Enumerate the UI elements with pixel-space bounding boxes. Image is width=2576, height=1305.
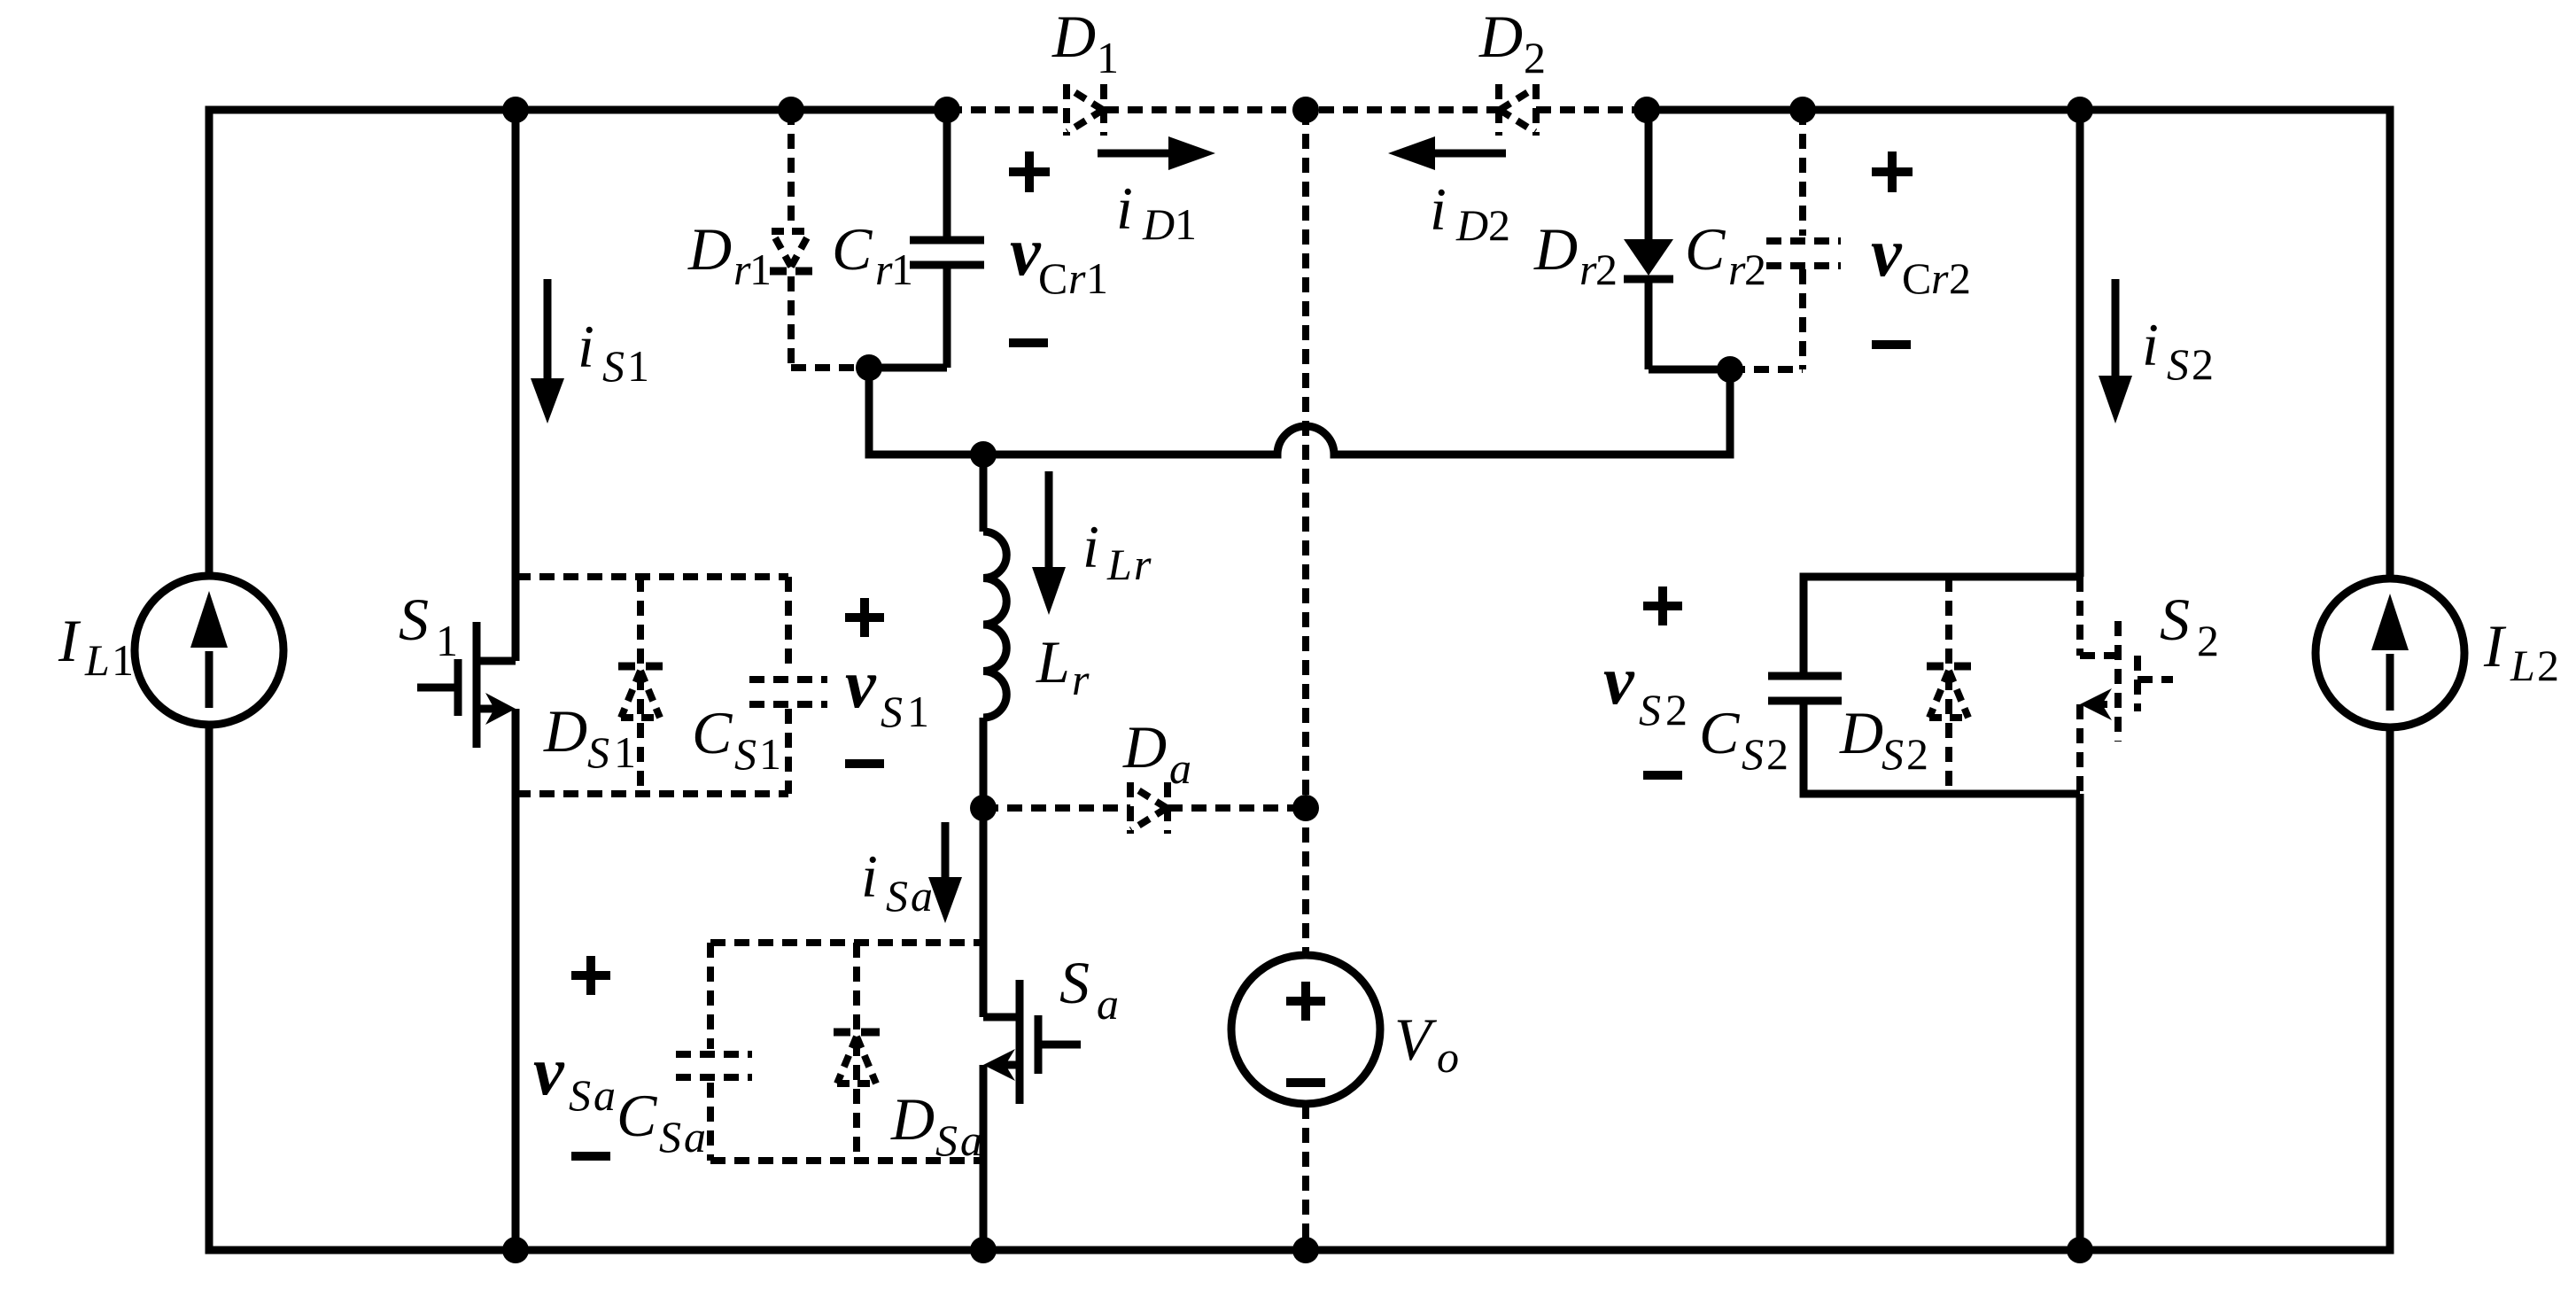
snubber box Sa (dashed) (710, 939, 983, 946)
svg-text:1: 1 (1097, 33, 1119, 82)
svg-text:i: i (1116, 175, 1133, 242)
label iD1 (1116, 175, 1197, 249)
node dot top rail S1 (502, 97, 529, 123)
label Vo (1394, 1006, 1459, 1082)
svg-text:i: i (1430, 175, 1447, 243)
svg-text:C: C (1038, 253, 1067, 303)
label CS2 (1699, 699, 1788, 779)
svg-text:1: 1 (614, 727, 636, 777)
node Lr bottom junction (970, 795, 997, 821)
svg-text:r: r (875, 245, 893, 294)
diode DSa (dashed) (834, 943, 880, 1161)
svg-text:I: I (2483, 612, 2507, 680)
svg-text:2: 2 (2192, 339, 2214, 389)
svg-text:r: r (1579, 245, 1597, 294)
label vCr2 minus (1872, 340, 1911, 349)
wire S2 branch upper (2076, 110, 2084, 577)
svg-text:C: C (692, 699, 733, 766)
svg-text:S: S (1639, 685, 1661, 734)
diode Dr1 (dashed) with node wiring (770, 110, 856, 368)
svg-text:2: 2 (1744, 245, 1766, 294)
wire center dashed output line upper (1302, 110, 1309, 955)
svg-text:D: D (1533, 215, 1578, 283)
label Cr1 (832, 215, 913, 294)
svg-text:v: v (533, 1032, 565, 1109)
transistor S2 (dashed) (2080, 577, 2173, 794)
svg-text:S: S (587, 727, 609, 777)
svg-text:2: 2 (1906, 729, 1928, 779)
arrow iLr (1032, 471, 1066, 615)
svg-text:r: r (1728, 245, 1746, 294)
node center line Da junction (1292, 795, 1319, 821)
diode DS2 (dashed) (1927, 577, 1971, 794)
arrow iS1 (531, 279, 564, 423)
svg-text:r: r (1072, 655, 1090, 704)
svg-text:r: r (1931, 253, 1949, 303)
label Dr1 (687, 215, 772, 294)
node dot top rail Dr1 (778, 97, 804, 123)
svg-text:S: S (2167, 339, 2189, 389)
label iSa (861, 843, 933, 920)
node mid-Lr junction (970, 441, 997, 468)
svg-text:r: r (1134, 540, 1152, 589)
label D2 (1478, 3, 1546, 82)
arrow iS2 (2099, 279, 2132, 423)
svg-text:r: r (1068, 253, 1086, 303)
snubber box S2 (solid) (1804, 577, 2080, 672)
svg-text:C: C (1902, 253, 1931, 303)
svg-text:2: 2 (2197, 616, 2219, 665)
svg-text:D: D (687, 215, 732, 283)
svg-text:o: o (1437, 1032, 1459, 1082)
svg-text:D: D (1051, 3, 1096, 70)
svg-text:S: S (886, 871, 908, 920)
wire top-right rail and right upper wire (1647, 110, 2390, 579)
label vS1 (845, 645, 929, 736)
wire Sa branch upper (980, 808, 988, 1017)
Vo internal minus (1286, 1078, 1325, 1087)
svg-text:D: D (1839, 699, 1883, 766)
svg-text:a: a (684, 1112, 706, 1161)
node dot bottom rail Sa (970, 1237, 997, 1263)
svg-text:1: 1 (1175, 199, 1197, 249)
node dot bottom rail center (1292, 1237, 1319, 1263)
svg-text:C: C (832, 215, 873, 283)
voltage source Vo (1231, 955, 1380, 1104)
current source IL2 (2316, 579, 2464, 727)
svg-text:S: S (1059, 949, 1090, 1016)
svg-text:a: a (594, 1070, 616, 1120)
svg-text:D: D (1122, 713, 1167, 781)
svg-text:D: D (1142, 199, 1175, 249)
svg-text:C: C (1685, 215, 1726, 283)
node dot bottom rail S1 (502, 1237, 529, 1263)
label Dr2 (1533, 215, 1618, 294)
Vo internal plus (1286, 982, 1325, 1021)
svg-text:S: S (399, 586, 429, 653)
label vS2 (1603, 641, 1688, 734)
wire top dashed rail segment 2 (1104, 106, 1499, 113)
svg-text:D: D (1478, 3, 1523, 70)
label Sa (1059, 949, 1119, 1029)
svg-text:1: 1 (907, 687, 929, 736)
diode Dr2 (1624, 110, 1673, 369)
svg-text:L: L (1106, 540, 1132, 589)
wire top-left rail and left upper wire (209, 110, 947, 576)
svg-text:r: r (733, 245, 751, 294)
wire S2 branch lower (2076, 794, 2084, 1250)
label vSa plus (571, 956, 610, 995)
svg-text:1: 1 (759, 729, 781, 779)
svg-text:D: D (543, 697, 587, 765)
svg-text:i: i (861, 843, 878, 910)
svg-text:S: S (1742, 729, 1764, 779)
capacitor CSa (dashed) (676, 1054, 752, 1077)
label D1 (1051, 3, 1119, 82)
svg-text:L: L (1036, 628, 1070, 695)
svg-text:1: 1 (112, 635, 134, 685)
label IL2 (2483, 612, 2559, 690)
svg-text:S: S (935, 1115, 958, 1165)
svg-text:v: v (845, 645, 877, 722)
node dot bottom rail S2 (2067, 1237, 2093, 1263)
capacitor CS1 (dashed) (749, 680, 827, 704)
svg-text:2: 2 (1949, 253, 1971, 303)
node dot top rail S2 (2067, 97, 2093, 123)
svg-text:v: v (1871, 214, 1903, 291)
diode D2 (dashed) (1499, 84, 1536, 136)
svg-text:S: S (659, 1112, 681, 1161)
node dot top rail center (1292, 97, 1319, 123)
svg-text:D: D (1455, 200, 1488, 250)
label vCr1 plus (1009, 151, 1050, 192)
svg-text:S: S (734, 729, 757, 779)
label vCr1 (1010, 213, 1108, 303)
wire S1 branch lower (512, 709, 520, 1250)
svg-text:2: 2 (2537, 641, 2559, 690)
svg-text:i: i (578, 313, 594, 380)
label vSa (533, 1032, 616, 1120)
node Dr2-Cr2 junction (1717, 356, 1743, 383)
label Lr (1036, 628, 1090, 704)
label vS1 minus (845, 759, 884, 768)
label iLr (1082, 513, 1152, 589)
svg-text:1: 1 (1086, 253, 1108, 303)
svg-text:2: 2 (1665, 685, 1688, 734)
svg-text:1: 1 (891, 245, 913, 294)
svg-text:a: a (911, 871, 933, 920)
svg-text:2: 2 (1524, 33, 1546, 82)
arrow iSa (928, 822, 962, 923)
wire top dashed rail segment 3 (1536, 106, 1647, 113)
current source IL1 (135, 576, 283, 725)
label vCr2 (1871, 214, 1971, 303)
svg-text:S: S (2160, 586, 2190, 653)
svg-text:C: C (617, 1082, 657, 1149)
svg-text:a: a (1097, 979, 1119, 1029)
inductor Lr (983, 454, 1006, 808)
node dot top rail Cr1 (934, 97, 960, 123)
svg-text:i: i (1082, 513, 1099, 580)
svg-text:2: 2 (1766, 729, 1788, 779)
wire mid rail with hop over output line (869, 368, 1730, 454)
wire Sa branch lower (980, 1065, 988, 1250)
label vS2 plus (1643, 586, 1682, 625)
arrow iD1 (1098, 136, 1215, 170)
wire center dashed output line lower (1302, 1104, 1309, 1250)
label vCr2 plus (1872, 151, 1913, 192)
svg-text:i: i (2142, 311, 2159, 378)
svg-text:L: L (84, 635, 110, 685)
wire S1 branch upper (512, 110, 520, 661)
diode D1 (dashed) (1067, 84, 1104, 136)
svg-text:v: v (1603, 641, 1635, 719)
label Cr2 (1685, 215, 1766, 294)
svg-text:S: S (569, 1070, 591, 1120)
label vS1 plus (845, 598, 884, 637)
label iD2 (1430, 175, 1510, 250)
svg-text:2: 2 (1595, 245, 1618, 294)
svg-text:I: I (58, 607, 81, 674)
transistor S1 (417, 622, 516, 748)
label Da (1122, 713, 1191, 793)
label vSa minus (571, 1152, 610, 1161)
wire top dashed rail segment 1 (947, 106, 1067, 113)
node dot top rail Dr2 (1633, 97, 1660, 123)
svg-text:a: a (960, 1115, 982, 1165)
transistor Sa (983, 980, 1081, 1104)
capacitor Cr1 (910, 110, 984, 368)
label vCr1 minus (1009, 338, 1048, 347)
svg-text:S: S (881, 687, 903, 736)
label vS2 minus (1643, 771, 1682, 780)
svg-text:D: D (890, 1085, 935, 1153)
svg-text:v: v (1010, 213, 1042, 290)
svg-text:S: S (602, 341, 625, 391)
svg-text:a: a (1169, 743, 1191, 793)
svg-text:2: 2 (1488, 200, 1510, 250)
snubber box S1 (dashed) (516, 573, 788, 580)
capacitor Cr2 (dashed) (1730, 110, 1841, 369)
label S2 (2160, 586, 2219, 665)
svg-text:1: 1 (627, 341, 649, 391)
capacitor CS2 (1768, 676, 1842, 701)
diode DS1 (dashed body diode) (618, 577, 663, 794)
label CSa (617, 1082, 706, 1161)
label DS2 (1839, 699, 1928, 779)
wire Cr1 bottom node (869, 364, 947, 372)
arrow iD2 (1388, 136, 1506, 170)
svg-text:L: L (2510, 641, 2535, 690)
label DSa (890, 1085, 982, 1165)
svg-text:S: S (1882, 729, 1904, 779)
svg-text:1: 1 (749, 245, 772, 294)
svg-text:C: C (1699, 699, 1740, 766)
label IL1 (58, 607, 134, 685)
node Cr1-Dr1 junction (856, 354, 882, 381)
label S1 (399, 586, 458, 665)
label iS1 (578, 313, 649, 391)
label CS1 (692, 699, 781, 779)
diode Da (dashed) (983, 782, 1306, 834)
wire bottom rail with left and right lower wires (209, 725, 2390, 1250)
svg-text:1: 1 (436, 616, 458, 665)
label iS2 (2142, 311, 2214, 389)
label DS1 (543, 697, 636, 777)
node dot top rail Cr2 (1789, 97, 1816, 123)
